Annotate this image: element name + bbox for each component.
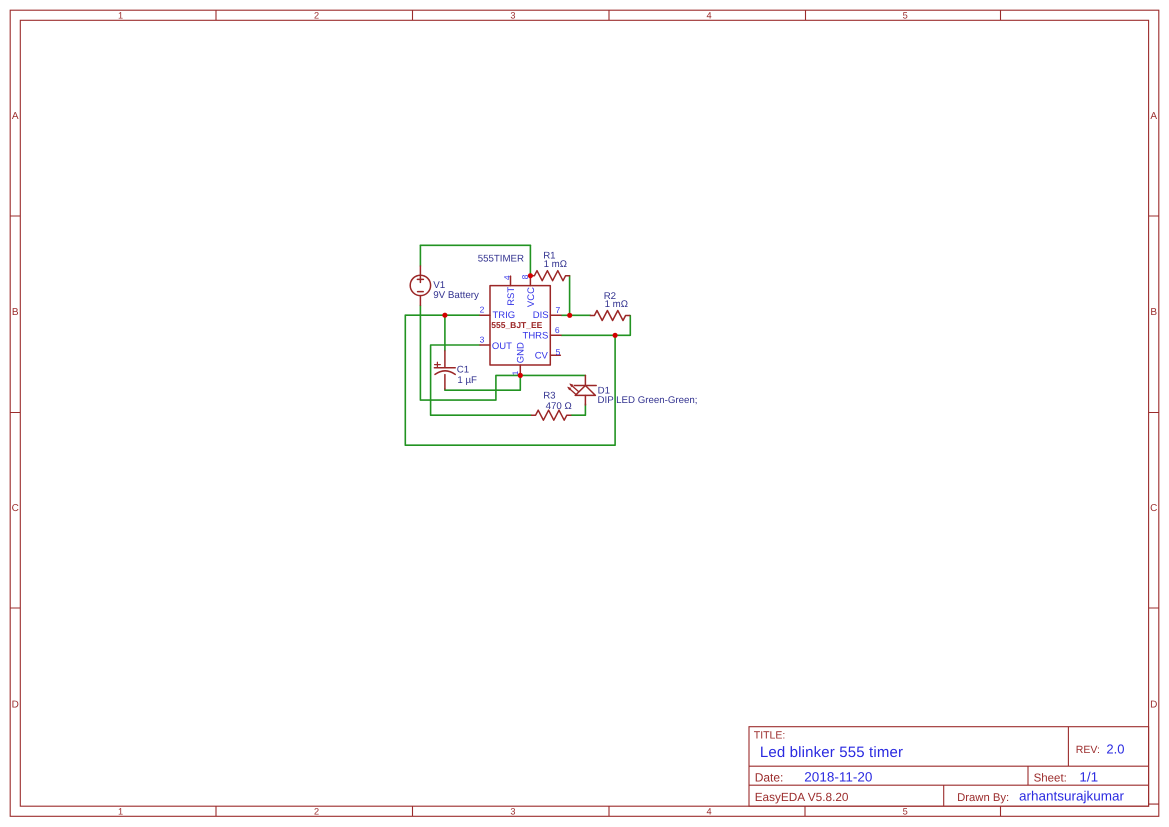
svg-text:RST: RST: [506, 287, 517, 306]
svg-text:GND: GND: [516, 342, 527, 363]
svg-text:TRIG: TRIG: [493, 310, 516, 321]
title block: [749, 727, 1149, 807]
svg-text:THRS: THRS: [523, 330, 549, 341]
svg-text:B: B: [1150, 307, 1157, 318]
svg-text:Date:: Date:: [755, 771, 784, 785]
svg-text:Sheet:: Sheet:: [1034, 773, 1067, 785]
svg-text:470 Ω: 470 Ω: [546, 401, 572, 412]
svg-text:D: D: [12, 700, 19, 711]
resistor R3: [532, 410, 571, 420]
svg-text:5: 5: [903, 11, 908, 21]
wire: THRS node down, across bottom, up to TRIG rail: [405, 315, 615, 445]
pin 3 OUT stub: [480, 344, 490, 346]
resistor R1: [530, 271, 569, 281]
capacitor C1 (polarized): [434, 351, 455, 389]
svg-text:555_BJT_EE: 555_BJT_EE: [491, 320, 542, 330]
svg-text:4: 4: [707, 11, 712, 21]
svg-text:4: 4: [502, 275, 512, 280]
resistor R2: [590, 311, 629, 321]
pin 5 CV stub: [550, 354, 560, 356]
svg-text:1/1: 1/1: [1079, 770, 1098, 785]
wire: DIS pin to R2 left lead: [561, 314, 590, 316]
svg-text:2: 2: [314, 11, 319, 21]
D1 light arrows: [567, 383, 578, 395]
svg-text:VCC: VCC: [526, 287, 537, 307]
wire: R3 right to LED anode: [571, 404, 586, 415]
svg-text:6: 6: [555, 325, 560, 335]
svg-text:D: D: [1150, 700, 1157, 711]
wire: VCC top rail from battery + to pin 8: [420, 244, 530, 246]
wire: TRIG node down to C1 top: [444, 315, 446, 351]
LED D1: [574, 375, 596, 405]
svg-text:4: 4: [707, 806, 712, 816]
svg-text:2018-11-20: 2018-11-20: [804, 770, 872, 785]
svg-text:2: 2: [314, 806, 319, 816]
wire: OUT pin left, down and right to R3: [431, 345, 532, 415]
svg-text:3: 3: [510, 806, 515, 816]
junction: DIS / R1 / R2: [567, 313, 572, 318]
svg-text:Led blinker 555 timer: Led blinker 555 timer: [760, 744, 903, 761]
svg-text:CV: CV: [535, 351, 549, 362]
pin 2 TRIG stub: [480, 314, 490, 316]
junction: pin 8 / top rail / R1: [528, 273, 533, 278]
svg-text:5: 5: [556, 347, 561, 357]
svg-text:A: A: [12, 111, 19, 122]
wire: pin 8 drop from top rail: [529, 245, 531, 275]
wire: R2 right end down and back to THRS pin: [561, 316, 630, 336]
svg-text:A: A: [1150, 111, 1157, 122]
svg-text:DIP LED Green-Green;: DIP LED Green-Green;: [598, 395, 698, 406]
pin 1 GND stub: [519, 365, 521, 376]
svg-text:Drawn By:: Drawn By:: [957, 792, 1009, 804]
wire: TRIG rail: [405, 314, 480, 316]
svg-text:B: B: [12, 307, 19, 318]
svg-text:5: 5: [903, 806, 908, 816]
wire: C1 bottom to GND node: [445, 376, 520, 391]
svg-text:REV:: REV:: [1076, 744, 1100, 756]
svg-text:3: 3: [510, 11, 515, 21]
svg-text:OUT: OUT: [492, 341, 512, 352]
svg-text:1 µF: 1 µF: [457, 375, 477, 386]
junction: GND node: [518, 373, 523, 378]
svg-text:555TIMER: 555TIMER: [478, 253, 524, 264]
svg-text:TITLE:: TITLE:: [754, 729, 786, 741]
svg-text:9V Battery: 9V Battery: [433, 290, 479, 301]
svg-text:1 mΩ: 1 mΩ: [544, 259, 567, 270]
wire: battery positive lead drop: [419, 245, 421, 266]
svg-text:1: 1: [118, 806, 123, 816]
wire: battery negative to GND node and on to LED cathode: [420, 305, 585, 400]
svg-text:C: C: [1150, 503, 1157, 514]
svg-text:arhantsurajkumar: arhantsurajkumar: [1019, 789, 1125, 804]
svg-text:3: 3: [480, 335, 485, 345]
pin 4 RST stub: [510, 276, 512, 286]
svg-text:2.0: 2.0: [1106, 742, 1124, 757]
svg-text:2: 2: [480, 305, 485, 315]
junction: THRS / R2 / feedback: [613, 333, 618, 338]
battery V1 (9V source): [410, 266, 430, 305]
pin 8 VCC stub: [529, 276, 531, 286]
C1 plus mark: [435, 362, 441, 367]
svg-text:C: C: [12, 503, 19, 514]
pin 7 DIS stub: [550, 314, 561, 316]
wire: R1 right side down to DIS node: [569, 276, 571, 316]
svg-text:7: 7: [556, 305, 561, 315]
svg-text:1 mΩ: 1 mΩ: [605, 299, 628, 310]
svg-text:C1: C1: [457, 364, 469, 375]
svg-text:DIS: DIS: [533, 310, 549, 321]
IC U1 555_BJT_EE body: [490, 286, 550, 365]
svg-text:EasyEDA V5.8.20: EasyEDA V5.8.20: [755, 790, 849, 804]
junction: TRIG / C1: [442, 313, 447, 318]
pin 6 THRS stub: [550, 334, 561, 336]
svg-text:1: 1: [118, 11, 123, 21]
